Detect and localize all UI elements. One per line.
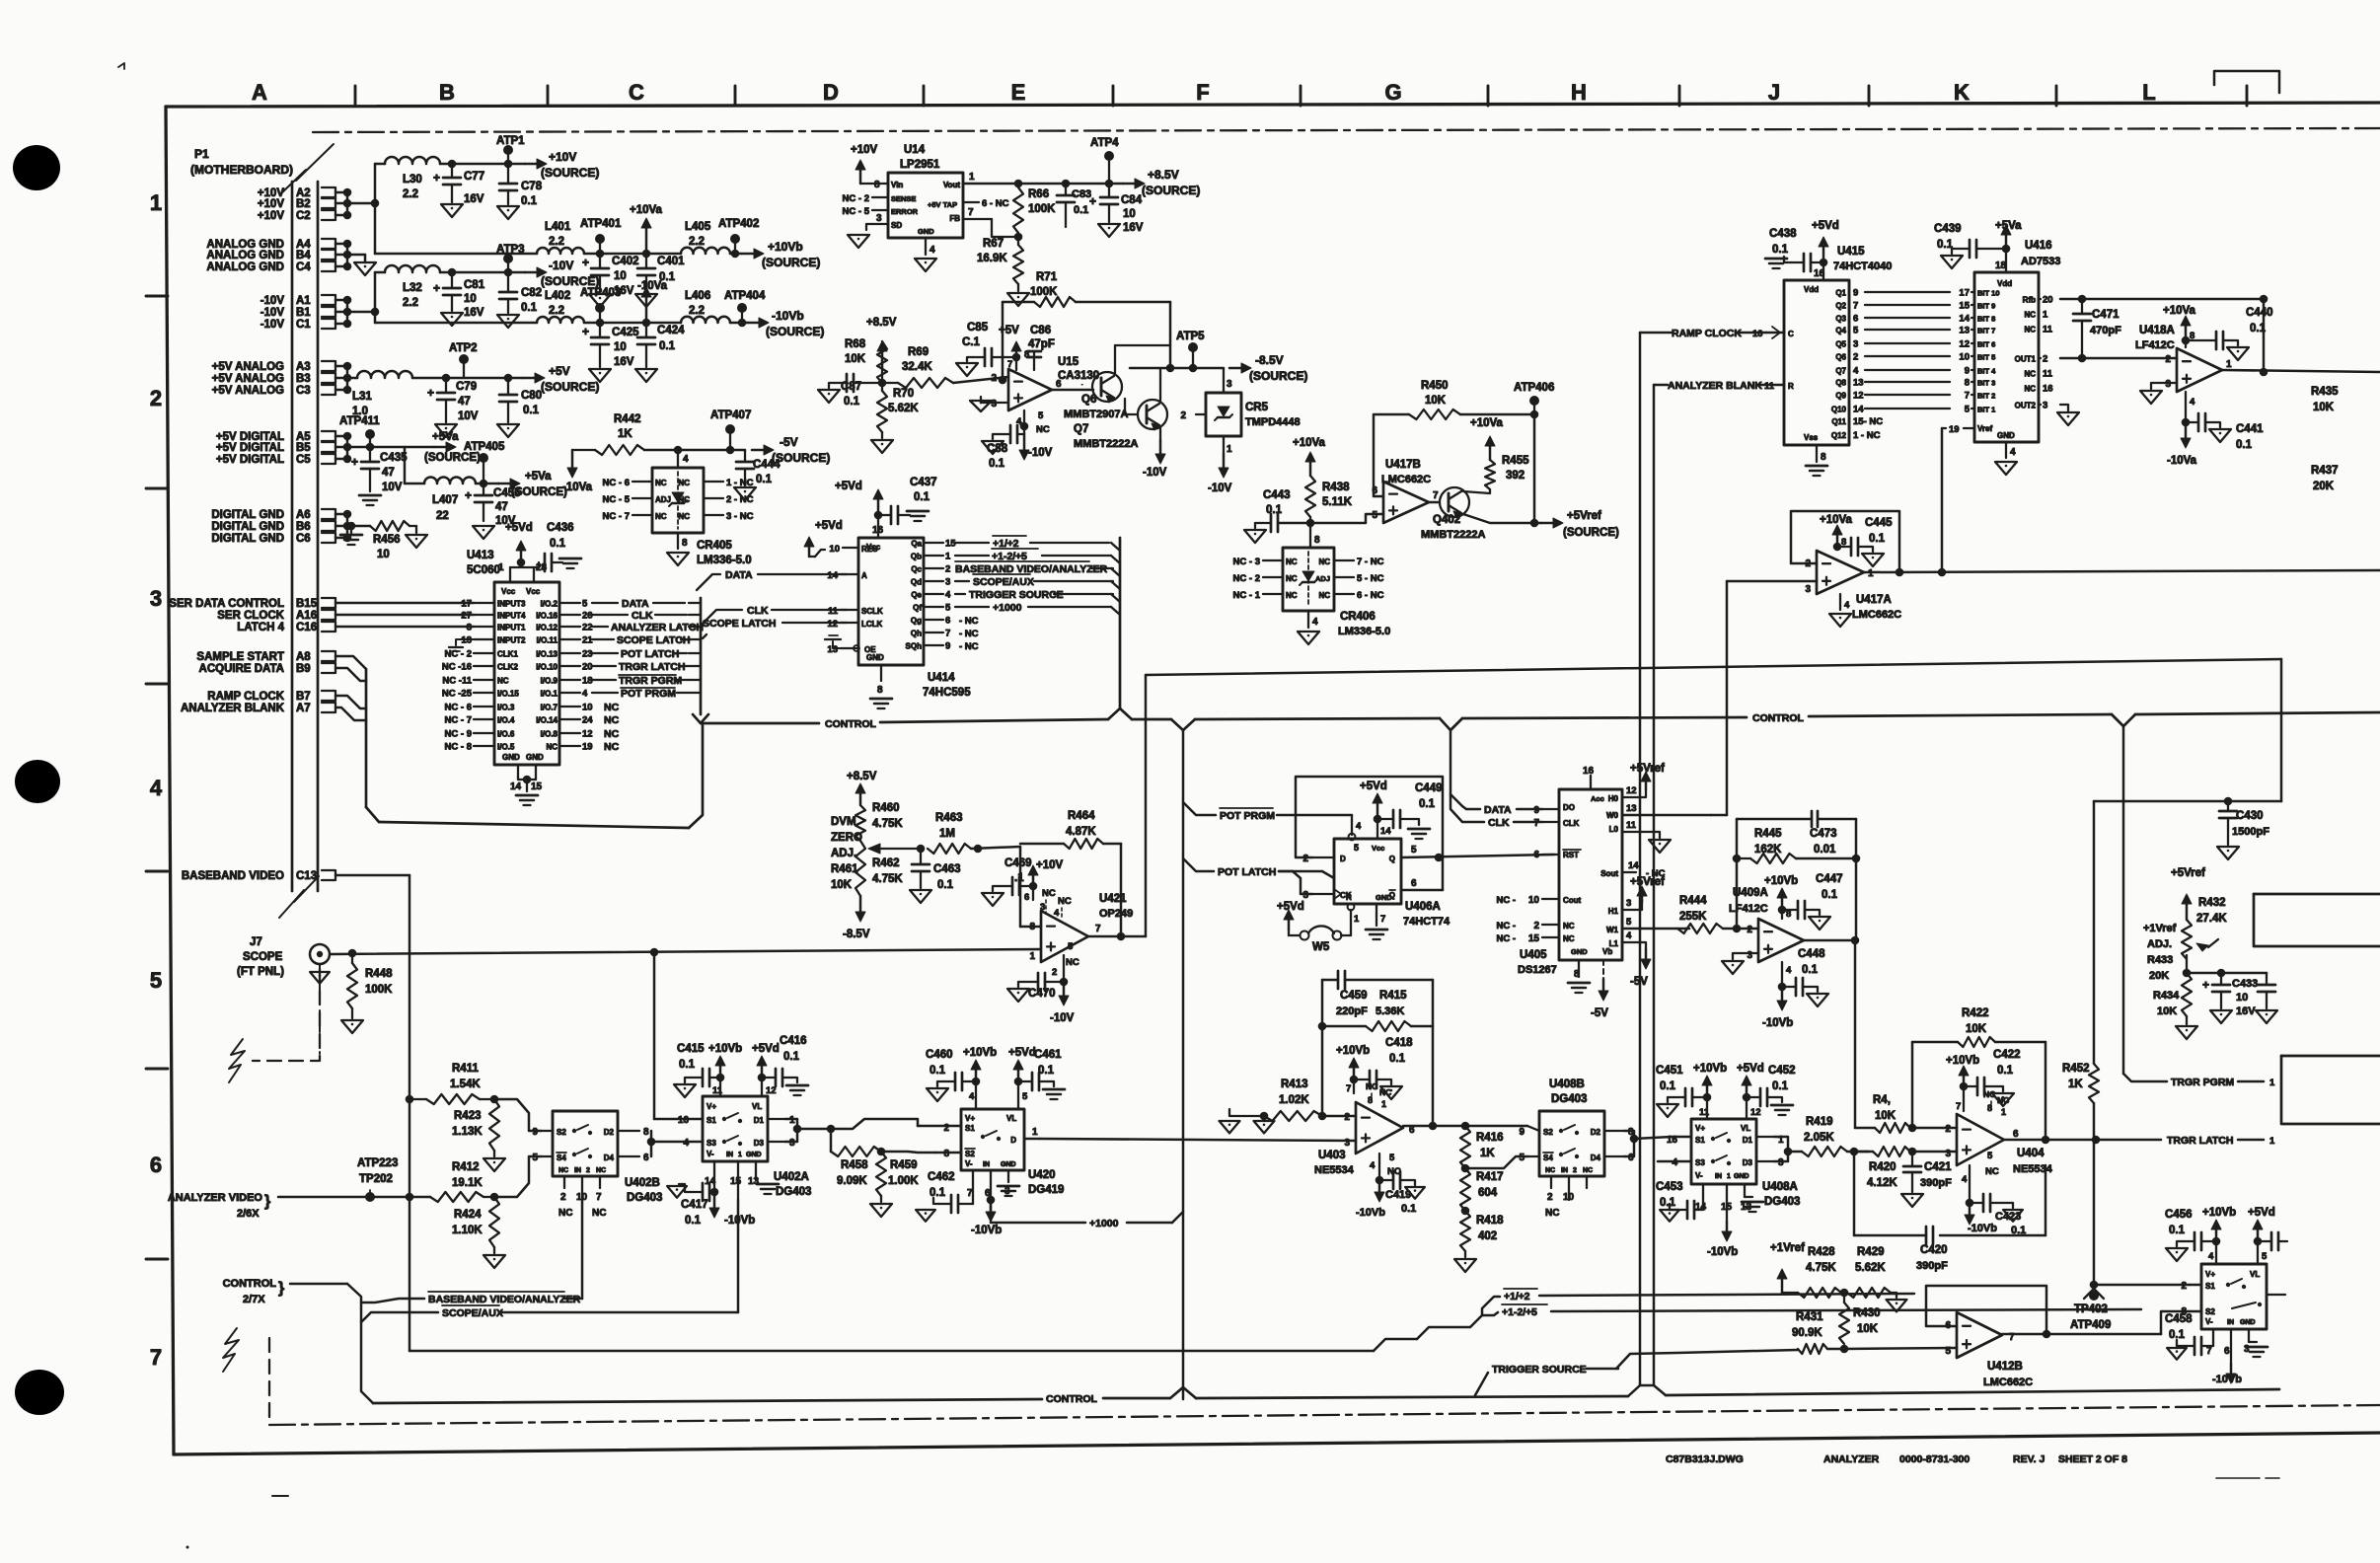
svg-text:1: 1: [2269, 1078, 2275, 1088]
U408A bottom pins: [1695, 1184, 1752, 1222]
IC U414 74HC595: [858, 538, 971, 699]
svg-text:R458: R458: [841, 1159, 868, 1171]
power +10Vb to U402A pin 11: [708, 1043, 742, 1096]
svg-text:LMC662C: LMC662C: [1381, 474, 1431, 485]
off-page connector right upper: [2254, 894, 2380, 946]
power +10Va to U417A: [1820, 514, 1853, 551]
svg-text:Q4: Q4: [1835, 327, 1846, 335]
resistor R66 100K: [1013, 187, 1056, 237]
svg-text:6: 6: [945, 616, 950, 627]
svg-text:LF412C: LF412C: [1729, 903, 1768, 915]
svg-text:0.1: 0.1: [1997, 1065, 2014, 1077]
dashed boundary left segment: [253, 969, 320, 1061]
wire +5V DIGITAL pin group tie: [335, 432, 434, 464]
svg-text:5 - NC: 5 - NC: [1357, 573, 1384, 584]
svg-text:R417: R417: [1476, 1171, 1504, 1183]
resistor R458 9.09K: [831, 1129, 885, 1187]
svg-text:0.1: 0.1: [1772, 244, 1789, 256]
svg-text:SCOPE/AUX: SCOPE/AUX: [973, 576, 1034, 588]
wire -10V to second filter row: [375, 312, 537, 323]
svg-text:5: 5: [1987, 1151, 1993, 1161]
ground C424: [635, 369, 657, 382]
svg-text:+5Vd: +5Vd: [1737, 1063, 1764, 1075]
svg-text:ADJ.: ADJ.: [2147, 938, 2172, 950]
svg-text:NC: NC: [1286, 591, 1298, 600]
svg-text:NC: NC: [1318, 591, 1330, 600]
svg-text:LMC662C: LMC662C: [1852, 609, 1901, 621]
ground C447: [1809, 910, 1830, 930]
column tick marks: [355, 86, 2247, 106]
svg-text:5: 5: [1372, 510, 1377, 521]
ground C470: [1007, 982, 1029, 1002]
power +10Vb to U408A pin 11: [1693, 1063, 1727, 1119]
net hook POT PRGM: [1183, 802, 1352, 822]
svg-text:5: 5: [532, 1153, 538, 1163]
svg-text:GND: GND: [918, 227, 934, 236]
U417A pin 4 ground: [1840, 594, 1850, 611]
wire RAMP CLOCK vertical: [1640, 333, 1672, 1385]
svg-text:V+: V+: [1695, 1124, 1705, 1133]
svg-text:1.10K: 1.10K: [452, 1225, 483, 1236]
capacitor C435 47 10V: [351, 447, 408, 493]
svg-text:C: C: [1788, 330, 1794, 338]
svg-text:13: 13: [1959, 326, 1970, 336]
net +1-2/div5 from U414: [955, 549, 1111, 562]
svg-text:R66: R66: [1028, 188, 1049, 200]
svg-text:+5Vd: +5Vd: [2248, 1207, 2275, 1219]
feedback loop C459/R415: [1318, 980, 1327, 1116]
wire OUT1 to U418A: [2060, 357, 2177, 360]
svg-text:+: +: [1089, 194, 1096, 208]
svg-text:C78: C78: [521, 181, 543, 192]
svg-text:R4,: R4,: [1873, 1094, 1891, 1106]
svg-text:(MOTHERBOARD): (MOTHERBOARD): [190, 163, 293, 177]
svg-text:DG419: DG419: [1028, 1184, 1064, 1196]
U404 NC pins 8 1: [1983, 1089, 2009, 1117]
svg-text:14: 14: [1959, 314, 1970, 325]
svg-text:AD7533: AD7533: [2021, 256, 2060, 267]
svg-text:B15: B15: [296, 598, 318, 610]
svg-text:0.01: 0.01: [1814, 844, 1836, 856]
svg-text:16: 16: [1583, 766, 1595, 777]
ground C425: [589, 369, 611, 382]
svg-text:+10V: +10V: [258, 198, 285, 210]
wire U15 out to Q6: [1052, 384, 1093, 390]
svg-text:SCOPE: SCOPE: [243, 951, 283, 963]
ground C421: [1901, 1194, 1923, 1207]
power +10V to U421 pin6: [1024, 859, 1064, 903]
test point ATP4: [1090, 137, 1119, 184]
svg-text:NC: NC: [678, 512, 690, 521]
svg-text:0.1: 0.1: [1389, 1053, 1406, 1065]
svg-text:CLK2: CLK2: [497, 663, 518, 672]
power +8.5V arrow: [866, 317, 897, 383]
ground U409A +input: [1722, 953, 1758, 974]
svg-text:5: 5: [1068, 941, 1074, 952]
svg-text:9: 9: [1533, 805, 1539, 816]
svg-text:0.1: 0.1: [1772, 1080, 1789, 1092]
svg-text:10: 10: [614, 341, 627, 353]
svg-text:+5Vref: +5Vref: [1567, 510, 1601, 522]
svg-text:0.1: 0.1: [989, 458, 1005, 470]
transistor Q402 MMBT2222A: [1421, 487, 1485, 541]
svg-text:I/O.16: I/O.16: [536, 612, 558, 621]
svg-text:GND: GND: [1001, 1161, 1016, 1168]
ground C437: [907, 511, 929, 521]
svg-text:Vcc: Vcc: [501, 587, 516, 596]
svg-text:2: 2: [2165, 354, 2171, 365]
svg-text:13: 13: [1626, 803, 1637, 814]
svg-text:IN: IN: [726, 1152, 733, 1158]
svg-text:NC: NC: [1997, 1095, 2009, 1105]
ground C88: [982, 434, 1004, 454]
U418A pin 4 lower supply: [2182, 392, 2195, 426]
capacitor C460 0.1: [926, 1049, 980, 1090]
svg-text:8: 8: [682, 538, 688, 549]
test point ATP403: [580, 287, 621, 323]
svg-text:C469: C469: [1004, 857, 1032, 869]
svg-text:GND: GND: [2240, 1319, 2256, 1326]
svg-text:18: 18: [582, 676, 593, 687]
svg-text:10: 10: [1752, 329, 1763, 339]
power +5Va to U416: [1995, 220, 2022, 272]
svg-text:ATP409: ATP409: [2070, 1319, 2111, 1331]
net TRGR PGRM label right: [2171, 1077, 2275, 1088]
U402A bottom pins: [705, 1161, 760, 1200]
ground C463: [910, 890, 931, 903]
svg-text:9: 9: [1965, 366, 1970, 377]
svg-text:LATCH 4: LATCH 4: [237, 622, 284, 633]
svg-text:F: F: [1196, 80, 1209, 105]
svg-text:6: 6: [1024, 892, 1029, 903]
svg-text:NC: NC: [1545, 1208, 1559, 1219]
svg-text:L30: L30: [403, 174, 422, 186]
svg-text:2: 2: [1052, 967, 1057, 978]
diode CR5 TMPD4448: [1180, 368, 1300, 455]
svg-text:12: 12: [827, 619, 838, 630]
wire +10V pin group tie: [335, 188, 379, 220]
svg-text:U14: U14: [904, 144, 926, 156]
power -10Vb arrow U404: [1965, 1203, 1997, 1234]
inductor L31 1.0: [352, 371, 412, 417]
svg-text:R445: R445: [1754, 828, 1782, 840]
wire Q402 emitter to +5Vref node: [1463, 514, 1541, 527]
ground C445: [1862, 547, 1884, 566]
svg-text:10: 10: [1563, 1192, 1575, 1203]
U421 pin 5 NC: [1066, 941, 1079, 968]
svg-text:Q10: Q10: [1831, 406, 1847, 414]
svg-text:IN: IN: [1561, 1167, 1568, 1174]
diode CR405 LM336-5.0: [603, 450, 754, 566]
svg-text:+10Va: +10Va: [1820, 514, 1853, 526]
svg-text:C437: C437: [910, 477, 937, 488]
ground C402: [589, 294, 611, 307]
svg-text:1: 1: [1032, 1127, 1038, 1138]
U420 bottom pins: [967, 1170, 1010, 1216]
svg-text:-10Vb: -10Vb: [1968, 1223, 1997, 1234]
capacitor C451 0.1: [1656, 1065, 1711, 1106]
svg-text:I/O.2: I/O.2: [541, 600, 558, 609]
svg-text:R463: R463: [935, 812, 963, 824]
svg-text:OP249: OP249: [1099, 908, 1133, 920]
svg-text:C13: C13: [296, 870, 317, 882]
resistor R464 4.87K feedback: [1020, 810, 1121, 936]
svg-text:(SOURCE): (SOURCE): [541, 380, 599, 394]
power +5Vd to U414 pin16: [835, 481, 884, 538]
wire U402A D1 to U420: [785, 1119, 918, 1142]
U408A pin numbers: [1658, 1135, 1784, 1168]
svg-text:+1Vref: +1Vref: [1770, 1242, 1805, 1254]
svg-text:U404: U404: [2017, 1148, 2045, 1159]
svg-text:NC: NC: [2024, 370, 2036, 379]
svg-text:-10V: -10V: [1143, 467, 1167, 479]
svg-text:L32: L32: [403, 282, 422, 294]
svg-text:-10V: -10V: [260, 307, 285, 319]
svg-text:2.2: 2.2: [689, 305, 705, 317]
power -10Vb arrow U402A: [709, 1188, 755, 1227]
svg-text:ADJ.: ADJ.: [831, 848, 856, 859]
svg-text:U409A: U409A: [1733, 887, 1768, 899]
U409A output wire: [1804, 858, 1859, 1128]
svg-text:I/O.5: I/O.5: [497, 743, 515, 752]
power -5V arrow U405 L1: [1630, 949, 1651, 988]
svg-text:NC - 5: NC - 5: [843, 206, 870, 217]
capacitor C455 47 10V: [465, 484, 521, 527]
svg-text:1: 1: [2226, 359, 2232, 370]
svg-text:4: 4: [582, 689, 588, 700]
svg-text:-10Vb: -10Vb: [1762, 1017, 1793, 1029]
svg-text:+: +: [351, 455, 358, 469]
svg-text:+5Vd: +5Vd: [815, 520, 843, 532]
svg-text:C418: C418: [1385, 1037, 1413, 1049]
svg-text:6: 6: [2013, 1129, 2019, 1140]
net ANALYZER LATCH from U413: [592, 622, 704, 633]
ground J7 shell: [310, 964, 330, 984]
svg-text:C445: C445: [1865, 517, 1893, 529]
svg-text:CR5: CR5: [1245, 402, 1269, 413]
svg-text:11: 11: [2043, 369, 2053, 380]
power +5Vd to U413: [505, 522, 534, 567]
svg-text:TRGR LATCH: TRGR LATCH: [2167, 1135, 2233, 1147]
wire -10V pin group tie: [335, 296, 379, 329]
svg-text:A3: A3: [296, 361, 311, 373]
stray corner mark top left: [118, 63, 124, 69]
svg-text:5: 5: [945, 603, 951, 614]
svg-text:B5: B5: [296, 442, 311, 454]
svg-text:SCOPE/AUX: SCOPE/AUX: [442, 1307, 503, 1319]
svg-text:R420: R420: [1869, 1161, 1897, 1173]
svg-text:V-: V-: [707, 1150, 714, 1158]
svg-text:NC: NC: [1545, 1167, 1555, 1174]
net POT PRGM from U413: [592, 688, 689, 700]
svg-text:NC: NC: [655, 512, 667, 521]
svg-text:NC: NC: [604, 702, 620, 713]
U404 output node: [2004, 1136, 2100, 1145]
svg-text:3: 3: [1302, 890, 1308, 901]
ground C77: [441, 204, 463, 217]
svg-text:+5V ANALOG: +5V ANALOG: [212, 373, 284, 385]
wire ANALYZER BLANK vertical: [1654, 385, 1668, 1385]
U413 INPUT2 gnd stub: [449, 639, 474, 651]
bus chevron at x1199: [1171, 718, 1440, 730]
svg-text:5: 5: [1519, 1153, 1525, 1163]
svg-text:I/O.12: I/O.12: [536, 624, 558, 633]
svg-text:B3: B3: [296, 373, 311, 385]
svg-text:TP202: TP202: [359, 1173, 393, 1185]
svg-text:1: 1: [498, 562, 504, 573]
svg-text:C6: C6: [296, 533, 311, 545]
svg-text:Qh: Qh: [911, 630, 922, 638]
svg-text:10: 10: [377, 549, 390, 560]
svg-text:SAMPLE START: SAMPLE START: [196, 651, 284, 663]
svg-text:H0: H0: [1608, 794, 1619, 803]
capacitor C419 0.1: [1379, 1171, 1425, 1215]
svg-text:3: 3: [2165, 379, 2171, 390]
wire L407 to +5Va node: [476, 480, 498, 488]
ground R413 node: [1254, 1121, 1275, 1133]
svg-text:+10Vb: +10Vb: [1336, 1045, 1370, 1057]
power +5Vref arrow U405 H1: [1630, 876, 1665, 902]
svg-text:C438: C438: [1769, 228, 1797, 240]
resistor R422 10K: [1958, 1007, 1995, 1047]
svg-text:6: 6: [643, 1153, 649, 1163]
svg-text:10K: 10K: [1857, 1323, 1879, 1335]
svg-text:2: 2: [1302, 854, 1308, 864]
svg-text:Qe: Qe: [911, 591, 922, 600]
svg-text:3: 3: [1805, 584, 1811, 595]
svg-text:+10Vb: +10Vb: [1764, 875, 1798, 887]
svg-text:+1-2/÷5: +1-2/÷5: [1502, 1306, 1537, 1318]
wire R411 node to U402B S2: [494, 1099, 541, 1131]
svg-text:NC: NC: [2024, 385, 2036, 394]
power +10Va to R438: [1293, 437, 1326, 476]
svg-text:Sout: Sout: [1600, 869, 1618, 878]
IC U408B DG403: [1539, 1079, 1604, 1176]
svg-text:I/O.14: I/O.14: [536, 716, 558, 725]
U406A R-bar pin 1: [1348, 904, 1360, 935]
wire LATCH 4 to U413: [335, 626, 474, 629]
wire U420 D out to U403 +input: [1040, 1139, 1356, 1141]
svg-text:2.2: 2.2: [403, 188, 418, 200]
ground C417: [667, 1184, 691, 1198]
wire U408B outputs join: [1624, 1131, 1672, 1156]
svg-text:C470: C470: [1028, 988, 1056, 1000]
IC U413 5C060: [467, 550, 559, 765]
power +5Vd to U414 RES: [804, 520, 843, 557]
svg-text:1 - NC: 1 - NC: [1853, 430, 1881, 441]
power -10V arrow CR5: [1208, 454, 1232, 494]
IC U420 DG419: [961, 1109, 1064, 1196]
svg-text:3: 3: [1945, 1149, 1951, 1159]
svg-text:S3: S3: [707, 1139, 716, 1148]
capacitor C417 0.1: [681, 1174, 714, 1227]
svg-text:R434: R434: [2153, 990, 2180, 1002]
svg-text:+5V: +5V: [549, 364, 570, 378]
net CLK from U413: [592, 610, 687, 622]
svg-text:7: 7: [1956, 1101, 1961, 1112]
resistor R448 100K: [347, 953, 393, 1018]
svg-text:U420: U420: [1028, 1169, 1056, 1181]
power +5Vd to U420 pin 5: [1008, 1047, 1036, 1109]
capacitor C421 390pF: [1903, 1152, 1952, 1192]
svg-text:ATP401: ATP401: [580, 218, 622, 230]
svg-text:12: 12: [1750, 1107, 1761, 1118]
resistor R420 4.12K: [1856, 1147, 1957, 1189]
svg-text:I/O.7: I/O.7: [541, 704, 558, 712]
wire U421 -input: [1020, 926, 1041, 929]
svg-text:U421: U421: [1099, 893, 1127, 905]
ground C80: [497, 424, 519, 437]
svg-text:R416: R416: [1476, 1132, 1504, 1144]
test point ATP401: [580, 218, 622, 254]
svg-text:+8.5V: +8.5V: [847, 771, 877, 782]
ground C455: [473, 526, 494, 539]
svg-text:4: 4: [2190, 397, 2195, 408]
svg-text:4.75K: 4.75K: [872, 818, 903, 830]
svg-text:V-: V-: [1695, 1171, 1703, 1180]
svg-text:7: 7: [2206, 1346, 2212, 1357]
svg-text:0.1: 0.1: [783, 1051, 800, 1063]
net hook DATA: [1450, 730, 1542, 816]
svg-text:NC -16: NC -16: [442, 662, 472, 673]
svg-text:74HCT4040: 74HCT4040: [1833, 260, 1892, 272]
svg-text:74HCT74: 74HCT74: [1403, 916, 1450, 928]
wire Rfb to C471 node: [2060, 295, 2268, 304]
power -10V arrow U15: [1019, 434, 1053, 460]
U414 right pins: [906, 539, 957, 652]
svg-text:16: 16: [1814, 268, 1825, 279]
svg-text:+8.5V: +8.5V: [866, 317, 897, 329]
svg-text:+5V ANALOG: +5V ANALOG: [212, 385, 284, 397]
capacitor C456 0.1: [2165, 1209, 2220, 1250]
svg-text:+5V: +5V: [999, 325, 1019, 336]
svg-text:ACQUIRE DATA: ACQUIRE DATA: [199, 663, 284, 675]
feedback loop R445/C473: [1733, 819, 1742, 929]
capacitor C440 0.1: [2186, 307, 2273, 349]
svg-text:ATP223: ATP223: [357, 1157, 398, 1169]
svg-text:U403: U403: [1318, 1150, 1346, 1161]
svg-text:V-: V-: [965, 1159, 973, 1168]
svg-text:1.13K: 1.13K: [452, 1126, 483, 1138]
U14 FB pin 7 wire: [963, 207, 1022, 241]
svg-text:8: 8: [1821, 452, 1826, 463]
resistor R437 20K label: [2311, 465, 2339, 492]
svg-text:16V: 16V: [614, 356, 634, 368]
svg-text:C86: C86: [1030, 325, 1051, 336]
wire scope line branch down to U402A S1: [653, 952, 656, 1119]
svg-text:7: 7: [968, 207, 974, 218]
svg-text:- NC: - NC: [959, 629, 979, 639]
svg-text:-10Vb: -10Vb: [1707, 1246, 1738, 1258]
svg-text:15: 15: [730, 1176, 742, 1187]
svg-text:R452: R452: [2062, 1063, 2090, 1075]
net TRGR LATCH from U413: [592, 661, 689, 673]
ground C444: [734, 487, 756, 500]
svg-text:1: 1: [945, 552, 951, 562]
svg-text:U415: U415: [1837, 246, 1865, 258]
capacitor C415 0.1: [677, 1043, 724, 1086]
svg-text:4: 4: [683, 454, 689, 465]
svg-text:4: 4: [1312, 617, 1318, 628]
ground C436: [559, 558, 581, 568]
U421 NC pins 3 4: [1040, 888, 1072, 919]
ground R456: [406, 526, 427, 548]
svg-text:H: H: [1571, 80, 1587, 105]
svg-text:74HC595: 74HC595: [923, 687, 971, 699]
svg-text:NC: NC: [604, 714, 620, 726]
svg-text:SCLK: SCLK: [861, 607, 883, 616]
svg-text:DO: DO: [1563, 803, 1575, 812]
